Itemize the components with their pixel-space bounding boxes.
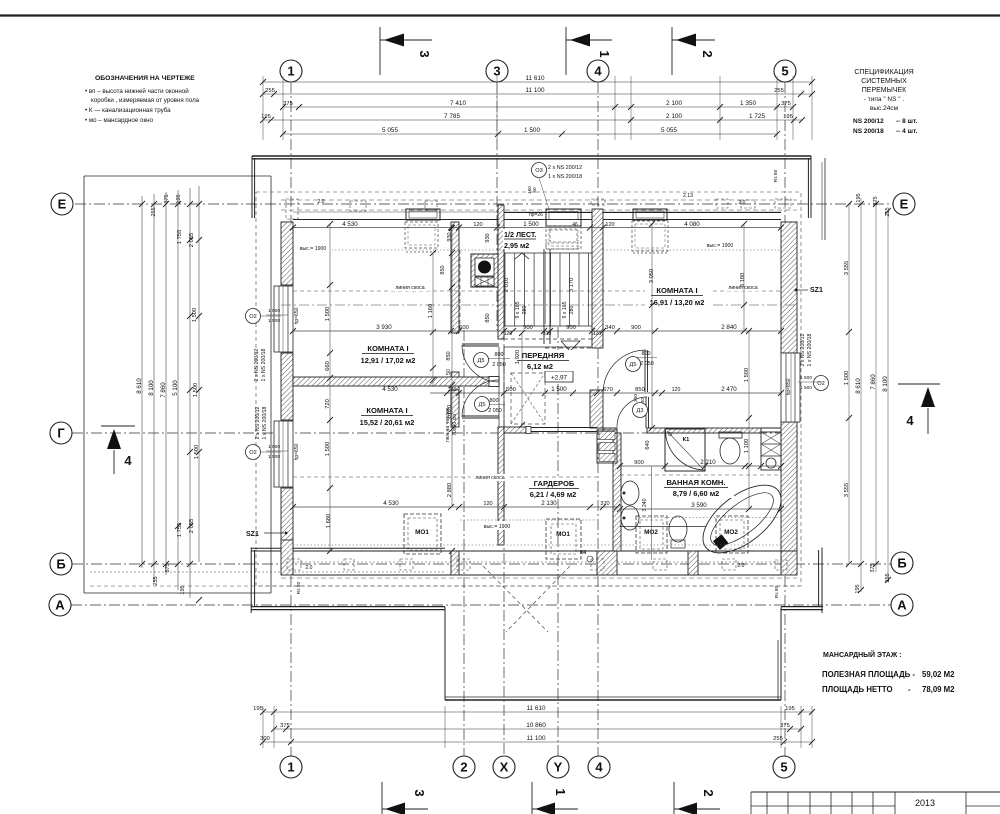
- svg-text:Rs 80: Rs 80: [774, 585, 780, 598]
- svg-text:8,79 / 6,60 м2: 8,79 / 6,60 м2: [673, 489, 720, 498]
- svg-text:КОМНАТА I: КОМНАТА I: [366, 406, 407, 415]
- vertical dim line col 433: [432, 253, 434, 387]
- svg-text:- типа " NS " .: - типа " NS " .: [864, 96, 905, 103]
- svg-text:3: 3: [417, 50, 432, 57]
- svg-text:ПЛОЩАДЬ НЕТТО: ПЛОЩАДЬ НЕТТО: [822, 685, 893, 694]
- svg-text:1 500: 1 500: [800, 375, 812, 381]
- svg-text:3 240: 3 240: [642, 498, 648, 511]
- stair left wall: [498, 205, 504, 339]
- svg-text:3 555: 3 555: [844, 483, 850, 498]
- bath tub: [691, 472, 792, 566]
- svg-text:hp=650: hp=650: [294, 443, 300, 460]
- axis circle Y bottom: [547, 756, 569, 778]
- axis circle B left: [50, 553, 72, 575]
- svg-text:1 500: 1 500: [268, 444, 280, 450]
- svg-text:4: 4: [595, 760, 603, 775]
- slope line bottom: [293, 476, 597, 478]
- svg-text:МО2: МО2: [724, 529, 738, 536]
- axis circle 1 bottom: [280, 756, 302, 778]
- dim row y393: [430, 392, 781, 394]
- svg-text:2.0: 2.0: [739, 200, 746, 206]
- interior wall W1 vertical: [451, 222, 459, 333]
- vertical dims left rooms: [329, 224, 331, 551]
- svg-text:2: 2: [460, 760, 467, 775]
- svg-text:МАНСАРДНЫЙ ЭТАЖ :: МАНСАРДНЫЙ ЭТАЖ :: [823, 650, 901, 659]
- axis circle A left: [49, 594, 71, 616]
- washbasins: [621, 481, 639, 505]
- axis circle 5 bottom: [773, 756, 795, 778]
- svg-text:375: 375: [283, 101, 293, 107]
- room2 label: [357, 405, 419, 428]
- svg-text:2 210: 2 210: [700, 459, 716, 466]
- svg-text:670: 670: [603, 387, 613, 393]
- svg-text:1 500: 1 500: [844, 371, 850, 386]
- axis circle 3 top: [486, 60, 508, 82]
- section arrow 1 bottom: [531, 782, 533, 814]
- door flag D5 b: [475, 397, 490, 412]
- svg-text:59,02 М2: 59,02 М2: [922, 670, 955, 679]
- svg-text:300: 300: [633, 394, 639, 402]
- axis circle 2 bottom: [453, 756, 475, 778]
- title block table: [751, 791, 1000, 793]
- left overhang outline: [84, 175, 271, 177]
- svg-text:МО1: МО1: [556, 531, 570, 538]
- svg-text:195: 195: [856, 193, 862, 202]
- svg-text:1 500: 1 500: [800, 385, 812, 391]
- svg-text:78,09 М2: 78,09 М2: [922, 685, 955, 694]
- section arrow 2 bottom: [673, 782, 675, 814]
- door flag D5 a: [474, 353, 489, 368]
- svg-text:1: 1: [553, 788, 568, 795]
- mansard window MO2 b: [716, 516, 748, 553]
- svg-text:255: 255: [153, 576, 159, 585]
- svg-text:255: 255: [151, 207, 157, 216]
- svg-text:1 500: 1 500: [192, 308, 198, 323]
- svg-text:Д5: Д5: [630, 362, 637, 368]
- shower K1: [665, 429, 705, 471]
- svg-text:1 500: 1 500: [551, 386, 567, 393]
- axis 5 line: [784, 82, 786, 756]
- svg-text:4 530: 4 530: [382, 386, 398, 393]
- svg-text:375: 375: [780, 723, 790, 729]
- svg-text:11 100: 11 100: [526, 735, 546, 742]
- svg-text:4 530: 4 530: [383, 500, 399, 507]
- svg-text:850: 850: [440, 265, 446, 274]
- svg-text:120: 120: [473, 222, 482, 228]
- svg-text:4 530: 4 530: [342, 221, 358, 228]
- svg-text:Д5: Д5: [478, 358, 485, 364]
- svg-text:1 x NS 200/18: 1 x NS 200/18: [548, 174, 582, 180]
- svg-text:375: 375: [164, 194, 170, 203]
- svg-text:hp=650: hp=650: [294, 307, 300, 324]
- svg-text:1 500: 1 500: [325, 442, 331, 457]
- valley dashed diagonals: [483, 566, 548, 632]
- door flag D3: [633, 403, 648, 418]
- section arrow 1 top: [565, 27, 567, 75]
- svg-text:850: 850: [485, 313, 491, 322]
- svg-text:2013: 2013: [915, 798, 935, 808]
- dim row bath: [620, 465, 781, 467]
- top window A room1: [406, 209, 440, 220]
- axis 4 line: [597, 82, 599, 756]
- axis circle 4 bottom: [588, 756, 610, 778]
- svg-text:2 x NS 200/12: 2 x NS 200/12: [254, 348, 260, 381]
- svg-text:4: 4: [124, 453, 132, 468]
- right wall hatched: [781, 222, 797, 353]
- svg-text:1 755: 1 755: [177, 230, 183, 245]
- svg-text:1 500: 1 500: [268, 454, 280, 460]
- dashed boxes above stairs: [550, 230, 577, 242]
- svg-text:1 500: 1 500: [523, 221, 539, 228]
- level mark box: [545, 371, 573, 382]
- mansard window MO1 a: [404, 514, 441, 554]
- top wall band dashed lines: [281, 199, 797, 201]
- top window B stairs: [546, 209, 581, 226]
- svg-text:2 055: 2 055: [189, 519, 195, 534]
- axis X line: [503, 249, 505, 756]
- svg-text:О3: О3: [535, 168, 542, 174]
- svg-text:2 100: 2 100: [666, 100, 682, 107]
- stair treads: [504, 253, 506, 326]
- top dimension chains: [262, 76, 264, 140]
- svg-text:ПОЛЕЗНАЯ ПЛОЩАДЬ -: ПОЛЕЗНАЯ ПЛОЩАДЬ -: [822, 670, 915, 679]
- svg-text:120: 120: [605, 222, 614, 228]
- svg-text:Е: Е: [58, 197, 67, 212]
- svg-text:1 100: 1 100: [744, 439, 750, 454]
- svg-text:5 100: 5 100: [172, 380, 179, 396]
- bathroom top wall W5: [603, 428, 617, 433]
- svg-text:Rs 80: Rs 80: [773, 169, 779, 182]
- svg-text:375: 375: [280, 723, 290, 729]
- wardrobe label: [524, 478, 586, 499]
- svg-text:3 930: 3 930: [376, 324, 392, 331]
- svg-text:7 860: 7 860: [870, 374, 877, 390]
- axis circle 5 top: [774, 60, 796, 82]
- svg-text:выс.= 1900: выс.= 1900: [484, 524, 511, 530]
- bidet: [669, 516, 687, 542]
- axis 2 line: [463, 330, 465, 756]
- svg-text:КОМНАТА I: КОМНАТА I: [367, 344, 408, 353]
- svg-text:SZ1: SZ1: [246, 531, 259, 538]
- svg-text:1 755: 1 755: [177, 523, 183, 538]
- svg-text:195: 195: [176, 194, 182, 203]
- svg-text:9 x 165: 9 x 165: [515, 301, 521, 318]
- axis circle 1 top: [280, 60, 302, 82]
- svg-text:195: 195: [783, 114, 793, 120]
- svg-text:2 x NS 200/12: 2 x NS 200/12: [548, 165, 582, 171]
- svg-text:+2,97: +2,97: [551, 375, 568, 382]
- svg-text:2 050: 2 050: [488, 408, 502, 414]
- svg-text:800: 800: [642, 351, 651, 357]
- section arrow 3 top: [379, 27, 381, 75]
- svg-text:8 100: 8 100: [882, 376, 889, 392]
- window flag O3: [532, 163, 547, 178]
- right wall window O2: [781, 353, 800, 422]
- axis circle A right: [891, 594, 913, 616]
- svg-text:7 410: 7 410: [450, 100, 466, 107]
- top window C room3: [633, 209, 667, 220]
- svg-text:375: 375: [873, 196, 879, 205]
- svg-text:2.0: 2.0: [738, 563, 745, 569]
- axis circle 4 top: [587, 60, 609, 82]
- svg-text:2 010: 2 010: [504, 278, 510, 293]
- boiler box: [761, 432, 781, 470]
- svg-text:1 500: 1 500: [325, 307, 331, 322]
- toilet: [719, 432, 742, 438]
- bottom dimension chains: [262, 706, 264, 748]
- room3 label: [645, 285, 710, 308]
- bottom wall band: [251, 550, 797, 552]
- stair right wall W4: [592, 209, 603, 348]
- svg-text:6,21 / 4,69 м2: 6,21 / 4,69 м2: [530, 490, 577, 499]
- svg-text:195: 195: [855, 584, 861, 593]
- top band dashed clips: [286, 199, 298, 219]
- svg-text:1 x NS 200/18: 1 x NS 200/18: [807, 333, 813, 366]
- svg-text:люк на чердак: люк на чердак: [445, 407, 451, 442]
- right dimension chains: [848, 204, 850, 564]
- svg-text:8 100: 8 100: [148, 380, 155, 396]
- svg-text:120: 120: [672, 387, 681, 393]
- svg-text:640: 640: [645, 440, 651, 449]
- svg-text:1 x NS 200/18: 1 x NS 200/18: [262, 406, 268, 439]
- svg-text:800: 800: [495, 352, 504, 358]
- axis circle X bottom: [493, 756, 515, 778]
- svg-text:11 610: 11 610: [525, 75, 545, 82]
- svg-text:15,52 / 20,61 м2: 15,52 / 20,61 м2: [360, 418, 415, 427]
- svg-text:ОБОЗНАЧЕНИЯ НА ЧЕРТЕЖЕ: ОБОЗНАЧЕНИЯ НА ЧЕРТЕЖЕ: [95, 75, 195, 82]
- svg-text:660: 660: [325, 361, 331, 371]
- right overhang outline: [824, 158, 826, 240]
- svg-text:4: 4: [906, 413, 914, 428]
- svg-text:2.13: 2.13: [683, 193, 693, 199]
- svg-text:800: 800: [490, 398, 499, 404]
- bath ceiling break line: [620, 526, 706, 528]
- svg-text:930: 930: [485, 233, 491, 242]
- svg-text:500: 500: [506, 387, 516, 393]
- svg-text:3 180: 3 180: [740, 273, 746, 288]
- svg-text:• мо – мансардное окно: • мо – мансардное окно: [85, 117, 154, 124]
- svg-text:3 555: 3 555: [844, 261, 850, 276]
- svg-text:2 130: 2 130: [541, 500, 557, 507]
- dashed sill marks bottom band: [287, 559, 301, 570]
- hall label: [514, 350, 574, 371]
- mansard window MO2 a: [636, 516, 667, 553]
- axis circle B right: [891, 552, 913, 574]
- svg-text:-: -: [908, 685, 911, 694]
- svg-text:120: 120: [593, 331, 602, 337]
- svg-text:80: 80: [532, 187, 537, 193]
- svg-text:3: 3: [412, 789, 427, 796]
- svg-text:1 500: 1 500: [744, 368, 750, 383]
- svg-text:выс.= 1900: выс.= 1900: [300, 246, 327, 252]
- svg-text:ВАННАЯ КОМН.: ВАННАЯ КОМН.: [666, 478, 725, 487]
- svg-text:• К — канализационная труба: • К — канализационная труба: [85, 107, 171, 114]
- svg-text:310: 310: [543, 331, 552, 337]
- hall-wardrobe wall W9: [504, 427, 526, 433]
- svg-text:-- 4 шт.: -- 4 шт.: [896, 128, 918, 135]
- axis Y line: [557, 327, 559, 756]
- svg-text:1 500: 1 500: [194, 445, 200, 460]
- svg-text:3 590: 3 590: [691, 502, 707, 509]
- height 1900 dashed line: [293, 249, 504, 251]
- svg-text:300: 300: [260, 736, 270, 742]
- dashed eave line bottom: [90, 585, 800, 587]
- svg-text:2 050: 2 050: [640, 361, 654, 367]
- svg-text:1: 1: [287, 760, 294, 775]
- window flag O2 right: [814, 376, 829, 391]
- svg-text:16,91 / 13,20 м2: 16,91 / 13,20 м2: [650, 298, 705, 307]
- svg-text:1 920: 1 920: [515, 350, 521, 365]
- svg-text:ПЕРЕДНЯЯ: ПЕРЕДНЯЯ: [522, 351, 564, 360]
- svg-text:X: X: [500, 760, 509, 775]
- svg-text:СПЕЦИФИКАЦИЯ: СПЕЦИФИКАЦИЯ: [854, 69, 913, 76]
- left wall window O2 lower: [274, 421, 293, 487]
- svg-text:1 500: 1 500: [268, 308, 280, 314]
- svg-text:900: 900: [634, 460, 644, 466]
- svg-text:195: 195: [785, 706, 795, 712]
- door D5 hall-room3: [644, 350, 646, 392]
- svg-text:1 x NS 200/18: 1 x NS 200/18: [261, 348, 267, 381]
- svg-text:10 860: 10 860: [526, 722, 546, 729]
- svg-text:СИСТЕМНЫХ: СИСТЕМНЫХ: [861, 78, 907, 85]
- svg-text:2 050: 2 050: [492, 362, 506, 368]
- chimney block: [471, 254, 498, 287]
- axis 3 line: [496, 82, 498, 330]
- svg-text:КОМНАТА I: КОМНАТА I: [656, 286, 697, 295]
- dotted height line bottom: [293, 544, 781, 546]
- svg-text:ПЕРЕМЫЧЕК: ПЕРЕМЫЧЕК: [862, 87, 907, 94]
- svg-text:А: А: [897, 598, 907, 613]
- vent shaft: [597, 430, 617, 463]
- svg-text:120: 120: [483, 501, 492, 507]
- svg-text:8 610: 8 610: [855, 378, 862, 394]
- svg-text:ГАРДЕРОБ: ГАРДЕРОБ: [534, 479, 575, 488]
- axis E line: [75, 203, 893, 205]
- ridge dash-dot line: [281, 304, 797, 306]
- svg-text:Б: Б: [56, 557, 65, 572]
- svg-text:hp=850: hp=850: [786, 378, 792, 395]
- hatch box hall: [511, 373, 545, 424]
- svg-text:4: 4: [594, 64, 602, 79]
- door flag D5 c: [626, 357, 641, 372]
- svg-text:7 785: 7 785: [444, 113, 460, 120]
- svg-text:О2: О2: [249, 314, 256, 320]
- svg-text:Д3: Д3: [637, 408, 644, 414]
- svg-text:1 160: 1 160: [428, 304, 434, 319]
- svg-text:Е: Е: [900, 197, 909, 212]
- top frame line: [0, 14, 1000, 16]
- svg-text:-- 8 шт.: -- 8 шт.: [896, 118, 918, 125]
- svg-text:1 500: 1 500: [193, 383, 199, 398]
- axis circle E right: [893, 193, 915, 215]
- svg-text:2 x NS 200/12: 2 x NS 200/12: [255, 406, 261, 439]
- svg-text:12,91 / 17,02 м2: 12,91 / 17,02 м2: [361, 356, 416, 365]
- svg-text:Д5: Д5: [479, 402, 486, 408]
- svg-text:2,95 м2: 2,95 м2: [504, 241, 529, 250]
- svg-text:1 500: 1 500: [268, 318, 280, 324]
- svg-text:1 500: 1 500: [524, 127, 540, 134]
- svg-text:850: 850: [635, 387, 645, 393]
- svg-text:5 055: 5 055: [382, 127, 398, 134]
- svg-text:А: А: [55, 598, 65, 613]
- svg-text:NS 200/18: NS 200/18: [853, 128, 884, 135]
- svg-text:255: 255: [885, 207, 891, 216]
- section arrow 4 right: [898, 383, 940, 385]
- svg-text:5: 5: [781, 64, 788, 79]
- door D5 hall-room2: [462, 415, 499, 417]
- svg-text:Rs 80: Rs 80: [296, 581, 302, 594]
- svg-text:SZ1: SZ1: [810, 287, 823, 294]
- svg-text:255: 255: [885, 573, 891, 582]
- stair direction marks: [515, 253, 529, 259]
- svg-text:NS 200/12: NS 200/12: [853, 118, 884, 125]
- svg-text:50: 50: [446, 369, 452, 375]
- svg-text:720: 720: [325, 399, 331, 409]
- axis circle E left: [51, 193, 73, 215]
- axis B line: [72, 563, 891, 565]
- svg-text:• вп – высота нижней части око: • вп – высота нижней части оконной: [85, 88, 189, 95]
- bathroom left wall W6: [613, 433, 621, 551]
- svg-text:375: 375: [165, 563, 171, 572]
- svg-text:линия скоса: линия скоса: [395, 285, 424, 291]
- svg-text:5: 5: [780, 760, 787, 775]
- interior wall W2 rooms divider: [293, 377, 499, 386]
- svg-text:выс.24см: выс.24см: [870, 105, 899, 112]
- svg-text:850: 850: [446, 351, 452, 360]
- door D3 hall-bath: [645, 397, 647, 428]
- dashed w1 extension: [459, 250, 461, 332]
- svg-text:930: 930: [447, 232, 453, 241]
- wardrobe left wall: [498, 427, 504, 545]
- svg-text:К1: К1: [683, 437, 691, 443]
- section arrow 4 left: [101, 425, 135, 427]
- svg-text:46: 46: [572, 222, 578, 228]
- svg-text:280: 280: [522, 306, 528, 315]
- svg-text:255: 255: [265, 88, 275, 94]
- svg-text:линия скоса: линия скоса: [475, 475, 504, 481]
- svg-text:2: 2: [701, 789, 716, 796]
- svg-text:5 055: 5 055: [661, 127, 677, 134]
- svg-text:3 170: 3 170: [569, 278, 575, 293]
- axis A line: [71, 604, 891, 606]
- svg-text:9 x 165: 9 x 165: [562, 301, 568, 318]
- svg-text:hp=26: hp=26: [529, 212, 543, 218]
- svg-text:6,12 м2: 6,12 м2: [527, 362, 553, 371]
- svg-text:МО1: МО1: [415, 529, 429, 536]
- svg-text:1/2 ЛЕСТ.: 1/2 ЛЕСТ.: [504, 230, 536, 239]
- svg-text:340: 340: [605, 325, 615, 331]
- dim row y507: [293, 506, 617, 508]
- axis G line: [72, 432, 798, 434]
- svg-text:375: 375: [870, 563, 876, 572]
- dim row y227: [293, 227, 781, 229]
- bathroom label: [660, 477, 734, 498]
- left wall hatched: [281, 222, 293, 285]
- stair stringer: [543, 249, 545, 344]
- svg-text:8 610: 8 610: [136, 378, 143, 394]
- axis circle G left: [50, 422, 72, 444]
- svg-text:К4: К4: [580, 550, 586, 556]
- svg-text:1: 1: [287, 64, 294, 79]
- svg-text:2: 2: [700, 50, 715, 57]
- svg-text:195: 195: [261, 114, 271, 120]
- svg-text:375: 375: [781, 101, 791, 107]
- svg-text:7 860: 7 860: [160, 382, 167, 398]
- left wall window O2 upper: [274, 286, 293, 352]
- svg-text:выс.= 1900: выс.= 1900: [707, 243, 734, 249]
- svg-text:1 725: 1 725: [749, 113, 765, 120]
- dashed roof contour: [256, 192, 801, 586]
